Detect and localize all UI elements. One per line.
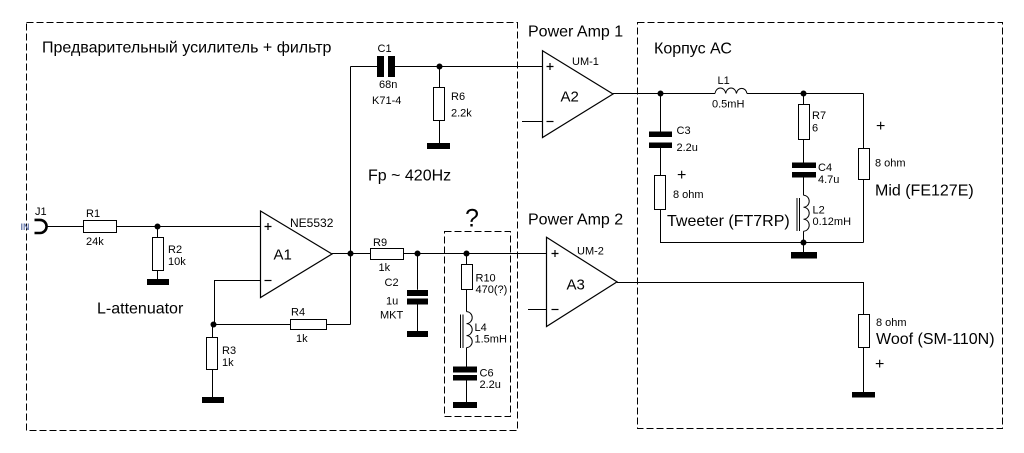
svg-text:6: 6 bbox=[812, 123, 818, 135]
wire R7 branch top bbox=[803, 94, 805, 105]
wire junction to R3 bbox=[212, 325, 214, 338]
wire junction to C2 bbox=[417, 254, 419, 290]
svg-text:C4: C4 bbox=[818, 162, 832, 174]
svg-text:1k: 1k bbox=[222, 357, 234, 369]
wire L1 to Mid branch bbox=[747, 93, 864, 95]
capacitor C3 2.2u bbox=[649, 125, 698, 154]
speaker Tweeter (FT7RP) 8 ohm bbox=[655, 167, 790, 230]
svg-text:68n: 68n bbox=[379, 79, 397, 91]
svg-text:10k: 10k bbox=[168, 256, 186, 268]
inductor L2 0.12mH bbox=[797, 195, 851, 231]
speaker Mid (FE127E) 8 ohm bbox=[859, 118, 974, 200]
wire C3 branch bbox=[660, 94, 662, 132]
wire C4 to L2 bbox=[803, 178, 805, 196]
svg-text:2.2u: 2.2u bbox=[480, 379, 501, 391]
wire C2 to ground bbox=[417, 305, 419, 332]
wire Mid to bottom rail bbox=[863, 180, 865, 243]
inductor L4 1.5mH bbox=[461, 312, 507, 348]
svg-text:Fp ~ 420Hz: Fp ~ 420Hz bbox=[368, 168, 451, 185]
svg-text:8 ohm: 8 ohm bbox=[875, 158, 906, 170]
wire riser to C1 bbox=[351, 66, 378, 68]
ground (woofer) bbox=[852, 392, 875, 398]
resistor R1 24k bbox=[84, 208, 117, 248]
ground (R3) bbox=[202, 397, 224, 403]
svg-text:NE5532: NE5532 bbox=[290, 216, 334, 230]
svg-text:8 ohm: 8 ohm bbox=[876, 317, 907, 329]
svg-text:2.2u: 2.2u bbox=[677, 142, 698, 154]
svg-text:470(?): 470(?) bbox=[476, 284, 508, 296]
svg-text:Power Amp 2: Power Amp 2 bbox=[528, 212, 623, 229]
svg-text:L-attenuator: L-attenuator bbox=[97, 301, 184, 318]
wire A2 output bbox=[613, 93, 715, 95]
wire R9 to A3 + input bbox=[404, 253, 547, 255]
ground (crossover) bbox=[791, 252, 817, 259]
svg-text:Mid (FE127E): Mid (FE127E) bbox=[875, 183, 974, 200]
resistor R9 1k bbox=[371, 237, 404, 274]
ground (C2) bbox=[407, 331, 428, 337]
ground (C6) bbox=[453, 402, 477, 408]
svg-text:Корпус АС: Корпус АС bbox=[654, 41, 732, 58]
ground (R6) bbox=[427, 143, 450, 149]
capacitor C1 68n K71-4 bbox=[372, 43, 401, 107]
wire A1 output to R9 bbox=[332, 253, 371, 255]
wire A2 - input stub bbox=[522, 121, 543, 123]
resistor R10 470(?) bbox=[462, 265, 508, 297]
svg-text:?: ? bbox=[465, 205, 479, 233]
svg-text:1u: 1u bbox=[386, 296, 398, 308]
node junction bottom rail bbox=[801, 240, 807, 246]
svg-text:Woof (SM-110N): Woof (SM-110N) bbox=[876, 331, 995, 348]
inductor L1 0.5mH bbox=[712, 75, 747, 111]
svg-text:Предварительный усилитель + фи: Предварительный усилитель + фильтр bbox=[42, 40, 332, 57]
wire C3 to tweeter bbox=[660, 148, 662, 176]
wire A1 - input stub bbox=[213, 281, 261, 325]
wire junction to R4 bbox=[214, 324, 291, 326]
wire A3 output to woofer bbox=[617, 283, 864, 315]
svg-text:R1: R1 bbox=[86, 208, 100, 220]
svg-text:8 ohm: 8 ohm bbox=[673, 189, 704, 201]
wire A3 - input stub bbox=[528, 309, 547, 311]
svg-text:IN: IN bbox=[21, 222, 30, 232]
svg-text:R4: R4 bbox=[291, 307, 305, 319]
resistor R4 1k bbox=[291, 307, 327, 346]
wire C1 to A2 + input bbox=[395, 66, 543, 68]
wire feedback riser to C1 branch bbox=[350, 67, 352, 325]
wire R3 to ground bbox=[212, 370, 214, 398]
svg-text:A1: A1 bbox=[274, 247, 292, 264]
svg-text:R10: R10 bbox=[476, 273, 496, 285]
resistor R7 6 bbox=[799, 105, 827, 140]
op-amp A1 NE5532 bbox=[261, 211, 334, 298]
wire J1 to R1 bbox=[47, 226, 84, 228]
svg-text:L1: L1 bbox=[718, 75, 730, 87]
node junction L1/R7 bbox=[801, 91, 807, 97]
svg-text:Power Amp 1: Power Amp 1 bbox=[528, 24, 623, 41]
svg-text:K71-4: K71-4 bbox=[372, 95, 401, 107]
svg-text:A3: A3 bbox=[567, 277, 585, 294]
svg-text:1k: 1k bbox=[379, 262, 391, 274]
speaker enclosure dashed box bbox=[638, 23, 1003, 429]
wire rail to ground bbox=[803, 243, 805, 253]
wire Mid branch down bbox=[863, 94, 865, 149]
svg-text:R9: R9 bbox=[373, 237, 387, 249]
svg-text:0.5mH: 0.5mH bbox=[712, 99, 744, 111]
svg-text:MKT: MKT bbox=[380, 310, 404, 322]
wire R1 to A1 + input bbox=[117, 226, 261, 228]
speaker Woof (SM-110N) 8 ohm bbox=[859, 315, 995, 374]
wire tweeter to bottom rail bbox=[661, 210, 864, 243]
wire R6 to ground bbox=[439, 121, 441, 144]
wire junction to R10 bbox=[466, 254, 468, 265]
svg-text:+: + bbox=[876, 118, 885, 135]
svg-text:L2: L2 bbox=[813, 205, 825, 217]
wire junction to R2 bbox=[157, 227, 159, 238]
wire junction to R6 bbox=[439, 67, 441, 88]
svg-text:+: + bbox=[677, 167, 686, 184]
node junction A2 out / C3 bbox=[658, 91, 664, 97]
node A1 output junction bbox=[348, 251, 354, 257]
node junction C1/R6 bbox=[437, 64, 443, 70]
node junction R10 branch bbox=[464, 251, 470, 257]
svg-text:UM-1: UM-1 bbox=[572, 56, 599, 68]
svg-text:L4: L4 bbox=[475, 322, 487, 334]
preamp enclosure dashed box bbox=[27, 23, 518, 431]
wire R10 to L4 bbox=[466, 290, 468, 312]
svg-text:C2: C2 bbox=[385, 277, 399, 289]
svg-text:4.7u: 4.7u bbox=[818, 174, 839, 186]
svg-text:2.2k: 2.2k bbox=[451, 108, 472, 120]
capacitor C4 4.7u bbox=[792, 162, 839, 186]
svg-text:0.12mH: 0.12mH bbox=[813, 216, 852, 228]
svg-text:Tweeter (FT7RP): Tweeter (FT7RP) bbox=[667, 213, 790, 230]
resistor R2 10k bbox=[153, 238, 187, 271]
filter dashed box bbox=[445, 232, 511, 417]
resistor R3 1k bbox=[207, 338, 237, 370]
connector J1 bbox=[35, 206, 47, 233]
capacitor C2 1u MKT bbox=[380, 277, 428, 322]
svg-text:C1: C1 bbox=[378, 43, 392, 55]
capacitor C6 2.2u bbox=[453, 367, 501, 392]
wire L2 to bottom rail bbox=[803, 231, 805, 242]
svg-text:R2: R2 bbox=[168, 244, 182, 256]
svg-text:A2: A2 bbox=[561, 89, 579, 106]
wire R2 to ground bbox=[157, 271, 159, 280]
wire R4 to feedback riser bbox=[327, 324, 351, 326]
node junction C2 bbox=[415, 251, 421, 257]
wire C6 to ground bbox=[466, 381, 468, 403]
ground (R2) bbox=[147, 279, 169, 285]
wire L4 to C6 bbox=[466, 348, 468, 367]
op-amp A2 UM-1 bbox=[543, 51, 614, 138]
svg-text:1k: 1k bbox=[296, 333, 308, 345]
resistor R6 2.2k bbox=[434, 88, 473, 121]
svg-text:R6: R6 bbox=[451, 91, 465, 103]
wire woofer to ground bbox=[863, 348, 865, 393]
svg-text:24k: 24k bbox=[86, 236, 104, 248]
svg-text:R3: R3 bbox=[222, 345, 236, 357]
svg-text:+: + bbox=[875, 356, 884, 373]
svg-text:C6: C6 bbox=[480, 368, 494, 380]
op-amp A3 UM-2 bbox=[547, 237, 618, 326]
node junction R3/R4 bbox=[211, 322, 217, 328]
svg-text:1.5mH: 1.5mH bbox=[475, 334, 507, 346]
wire R7 to C4 bbox=[803, 140, 805, 163]
svg-text:J1: J1 bbox=[35, 206, 47, 218]
svg-text:UM-2: UM-2 bbox=[577, 246, 604, 258]
node junction R1/R2 bbox=[155, 224, 161, 230]
svg-text:R7: R7 bbox=[812, 110, 826, 122]
svg-text:C3: C3 bbox=[677, 125, 691, 137]
